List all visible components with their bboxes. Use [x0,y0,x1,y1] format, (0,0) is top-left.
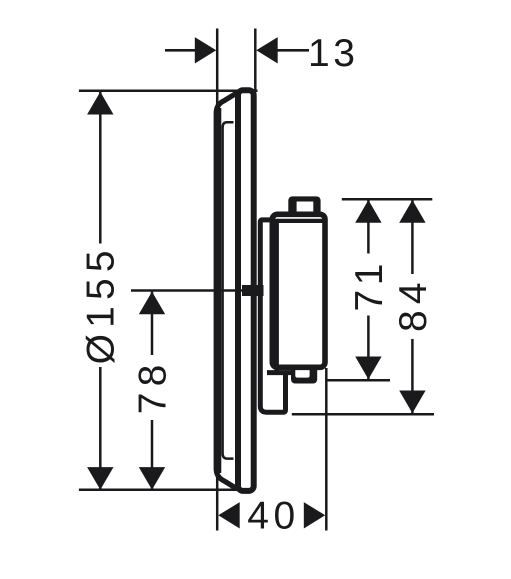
arrowhead 71 top [355,200,381,223]
arrowhead 13 left [195,37,216,63]
dim 78: dimension line (broken for text) [151,292,154,355]
cartridge inner top line [278,219,323,223]
svg-text:40: 40 [247,495,299,538]
arrowhead 78 bottom [139,467,165,490]
valve flange bottom line [267,370,296,375]
dim O155: dimension line (broken for text) [99,92,102,244]
dim 78: center tick line [131,289,260,292]
dim 40: left extension line [216,476,219,531]
valve top stop knob [288,196,320,214]
svg-text:84: 84 [392,276,435,332]
plate cap front contour line [217,108,221,473]
plate cap front outline [216,93,237,489]
valve bottom knob window [295,366,309,378]
arrowhead O155 bottom [87,467,113,490]
valve body outer [272,214,325,367]
arrowhead 84 top [399,200,425,223]
arrowhead 13 right [256,37,277,63]
dim 13: right leader [277,49,309,52]
arrowhead 40 left [218,502,239,528]
plate cap bevel inner line [223,122,234,458]
svg-text:Ø155: Ø155 [80,244,123,364]
valve top stop knob window [297,202,314,215]
arrowhead 78 top [139,292,165,315]
cartridge inner left line [275,219,279,373]
dim O155: bottom extension line [79,489,250,492]
arrowhead 84 bottom [399,391,425,414]
center connector block [242,285,264,296]
dim 13: right extension line [254,29,257,93]
dim 84: dimension line (broken for text) [411,200,414,274]
svg-text:71: 71 [348,259,391,311]
dim 40: right extension line [325,368,328,531]
arrowhead 40 right [304,502,325,528]
valve bottom knob [291,366,317,384]
dim 84: bottom extension line [292,413,434,416]
svg-text:13: 13 [308,32,358,75]
svg-text:78: 78 [132,359,175,415]
arrowhead O155 top [87,92,113,115]
dim O155: top extension line [79,89,258,92]
plate base body [238,90,254,491]
arrowhead 71 bottom [355,357,381,380]
dim 13: left leader [165,49,196,52]
dim 71/84: top extension line [342,198,433,201]
dim 13: left extension line [216,29,219,105]
dim 71: dimension line (broken for text) [367,200,370,254]
sleeve and lower housing outline [260,220,285,412]
dim 71: bottom extension line [327,379,390,382]
